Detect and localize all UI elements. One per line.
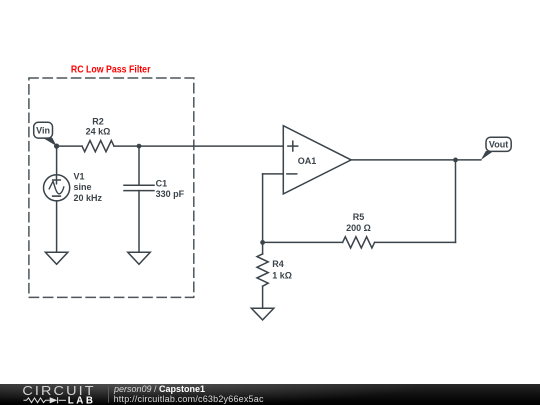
svg-text:LAB: LAB	[68, 396, 96, 405]
svg-text:24 kΩ: 24 kΩ	[86, 127, 111, 137]
resistor R4	[257, 254, 268, 286]
resistor R5	[343, 237, 375, 248]
net flag Vin	[43, 138, 57, 147]
footer bar	[0, 384, 540, 405]
svg-text:OA1: OA1	[298, 156, 317, 166]
ground (below R4)	[251, 308, 273, 320]
wire: inverting input stub	[263, 173, 284, 175]
node junction: R2/C1	[137, 144, 142, 149]
svg-text:R2: R2	[92, 116, 104, 126]
wire: junction down to C1 top plate	[138, 146, 140, 185]
wire: output node down to feedback wire	[455, 160, 457, 243]
svg-text:Vout: Vout	[489, 140, 508, 150]
svg-text:1 kΩ: 1 kΩ	[272, 270, 292, 280]
wire: feedback node down to R4	[262, 242, 264, 254]
svg-text:200 Ω: 200 Ω	[346, 223, 371, 233]
wire: R4 bottom lead to ground	[262, 286, 264, 308]
ground (below C1)	[128, 252, 150, 264]
capacitor C1	[124, 184, 154, 186]
svg-text:RC Low Pass Filter: RC Low Pass Filter	[71, 64, 151, 75]
footer line 1: user / project	[114, 384, 205, 394]
svg-text:R4: R4	[272, 259, 284, 269]
wire: R5 right lead to output node	[375, 241, 456, 243]
resistor R2	[82, 141, 114, 152]
ground (below V1)	[45, 252, 67, 264]
wire: R2 right lead to op-amp non-inverting input	[114, 145, 283, 147]
node junction: feedback/R4	[260, 240, 265, 245]
net flag Vout	[481, 151, 494, 160]
svg-text:330 pF: 330 pF	[156, 189, 185, 199]
svg-text:Vin: Vin	[36, 126, 50, 136]
wire: Vin node to R2 left lead	[57, 145, 82, 147]
svg-text:20 kHz: 20 kHz	[74, 193, 103, 203]
svg-text:V1: V1	[74, 172, 85, 182]
wire: V1 negative terminal to ground	[56, 201, 58, 252]
dashed enclosure box: RC Low Pass Filter	[29, 78, 194, 297]
op-amp OA1	[283, 126, 351, 194]
footer line 2: url	[114, 394, 264, 404]
svg-text:C1: C1	[156, 178, 168, 188]
wire: inverting input down to feedback node	[262, 174, 264, 243]
svg-text:sine: sine	[74, 182, 92, 192]
wire: feedback node to R5 left lead	[263, 241, 343, 243]
CircuitLab logo	[0, 384, 112, 405]
node junction: output/feedback	[453, 158, 458, 163]
wire: Vin node down to V1 positive terminal	[56, 146, 58, 175]
wire: C1 bottom plate to ground	[138, 191, 140, 253]
svg-text:R5: R5	[353, 212, 365, 222]
wire: op-amp output to Vout	[351, 159, 481, 161]
voltage source V1 (sine, 20 kHz)	[44, 175, 70, 201]
